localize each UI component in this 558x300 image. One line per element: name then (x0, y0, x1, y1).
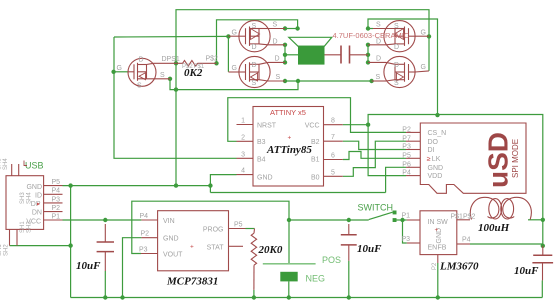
transistor Q1 top-left of bridge (228, 21, 285, 52)
uSD pin CLK stub (406, 157, 420, 159)
node dot inductor out (541, 218, 545, 222)
svg-text:P4: P4 (140, 213, 149, 220)
uSD card symbol outline (420, 123, 526, 193)
svg-text:7: 7 (331, 134, 335, 141)
LM pin SW stub (457, 219, 470, 221)
node dot Q3 drain (366, 43, 370, 47)
svg-text:8: 8 (331, 118, 335, 125)
svg-text:SH3: SH3 (20, 192, 26, 204)
svg-text:P$1P$2: P$1P$2 (451, 214, 476, 221)
wire long vertical x176 R2-left to GND row (175, 63, 177, 185)
svg-text:D: D (275, 56, 280, 63)
wire MCP GND to rail (123, 238, 142, 298)
node dot Q4 source (369, 79, 373, 83)
LM pin FB stub (457, 243, 470, 245)
wire switch lever (369, 212, 393, 219)
wire USB shield stubs row (10, 245, 71, 247)
svg-text:IN: IN (428, 219, 435, 226)
wire net VCC top segment to Q3 source and down to VCC line (368, 19, 438, 115)
svg-text:S: S (376, 22, 381, 29)
USB pin P2 DN (44, 211, 63, 213)
svg-text:D: D (252, 44, 257, 51)
svg-text:CS_N: CS_N (428, 130, 447, 137)
svg-text:B4: B4 (257, 157, 266, 164)
IC U2 MCP73831 box (141, 211, 246, 271)
LM pin IN stub (407, 219, 420, 221)
wire speaker left tap (285, 54, 298, 56)
svg-text:P7: P7 (402, 135, 411, 142)
svg-text:S: S (252, 23, 257, 30)
svg-text:uSD: uSD (483, 132, 514, 188)
speaker SP1 green symbol (289, 37, 341, 64)
wire switch to LM3670 IN (394, 219, 407, 221)
node dot rail 20k (252, 295, 256, 299)
pin 1 NRST stub (237, 124, 254, 126)
svg-text:P6: P6 (402, 161, 411, 168)
node dot Q5 source (168, 77, 172, 81)
MCP pin STAT stub (229, 245, 244, 247)
node dot R2 right (214, 61, 218, 65)
transistor Q4 bottom-right of bridge (mirrored) (368, 56, 429, 87)
wire VCC junction down to uSD VDD (368, 125, 406, 176)
LM pin EN stub (407, 242, 420, 244)
USB pin P1 VCC (44, 219, 63, 221)
pin 6 B1 stub (324, 159, 343, 161)
wire GND riser to uSD GND (386, 167, 406, 192)
node dot VCC right riser (435, 113, 439, 117)
svg-text:ID: ID (35, 192, 42, 199)
uSD pin GND stub (406, 166, 420, 168)
svg-text:FB: FB (438, 245, 447, 252)
wire speaker left node vertical Q1.D to Q2.D (284, 45, 286, 63)
wire Q1 source row (285, 28, 298, 30)
svg-text:P2: P2 (432, 262, 438, 270)
node dot rail cap2 (347, 295, 351, 299)
svg-text:USB: USB (25, 161, 44, 171)
node dot S drop (296, 79, 300, 83)
transistor Q5 left single MOSFET (128, 58, 176, 86)
svg-text:LM3670: LM3670 (439, 261, 479, 273)
node dot VCC junction (366, 123, 370, 127)
svg-text:PROG: PROG (203, 227, 224, 234)
USB pin P4 ID (44, 193, 63, 195)
svg-text:D: D (139, 57, 144, 64)
node dot vcc cap1 (103, 218, 107, 222)
MCP pin GND stub (141, 237, 157, 239)
node dot Q1 drain (283, 43, 287, 47)
svg-text:VOUT: VOUT (163, 252, 183, 259)
node dot Q2 source (283, 79, 287, 83)
svg-text:SH2: SH2 (4, 244, 10, 256)
svg-text:EN: EN (428, 245, 438, 252)
wire S net drop to lower row (176, 81, 298, 90)
svg-text:P$2: P$2 (182, 64, 193, 70)
svg-text:S: S (394, 23, 399, 30)
svg-text:ATTiny85: ATTiny85 (266, 144, 312, 156)
wire NEG pad to rail (288, 281, 290, 297)
svg-text:B0: B0 (311, 174, 320, 181)
connector J1 USB box (6, 164, 63, 246)
node dot Q1 source stub (283, 26, 287, 30)
wire bottom ground rail (71, 297, 543, 299)
node dot battery plus (287, 218, 291, 222)
svg-text:VIN: VIN (163, 218, 175, 225)
svg-text:G: G (232, 30, 237, 37)
wire C3 bottom to rail corner (541, 280, 543, 297)
wire B1 pin6 jog to uSD CLK (343, 152, 406, 160)
battery pad NEG green rectangle (280, 272, 297, 282)
svg-text:P2: P2 (141, 231, 150, 238)
uSD pin VDD stub (406, 175, 420, 177)
svg-text:10uF: 10uF (357, 243, 382, 255)
svg-text:SW: SW (437, 219, 449, 226)
wire USB GND row P5 (63, 185, 211, 187)
wire gate row B4 net from left vertical to Q1 gate (114, 35, 228, 38)
svg-text:+: + (288, 135, 292, 142)
transistor Q3 top-right of bridge (mirrored) (368, 21, 429, 52)
MCP pin VIN stub (141, 219, 157, 221)
capacitor C1 10uF left (97, 224, 114, 271)
wire source row S net Q2 to Q4 (285, 80, 372, 82)
capacitor C2 10uF middle (341, 224, 357, 261)
wire B2 pin7 to uSD DI (343, 141, 406, 149)
node dot rail neg (287, 295, 291, 299)
battery pad POS light green line (263, 263, 316, 265)
svg-text:P5: P5 (402, 152, 411, 159)
wire net N1 top line from resistor R2 left to right gates (176, 10, 429, 71)
uSD pin DI stub (406, 149, 420, 151)
node dot Q4 drain (366, 60, 370, 64)
svg-text:B3: B3 (257, 139, 266, 146)
svg-text:DO: DO (428, 139, 439, 146)
svg-text:1: 1 (241, 118, 245, 125)
capacitor C4 4.7uF horizontal (341, 46, 368, 64)
node dot rail cap1 (103, 295, 107, 299)
pin 8 VCC stub (324, 124, 343, 126)
svg-text:▸: ▸ (37, 202, 40, 208)
svg-text:P3: P3 (52, 196, 61, 203)
MCP pin PROG stub (229, 228, 246, 230)
svg-text:B1: B1 (311, 157, 320, 164)
svg-text:DPS1: DPS1 (162, 56, 180, 63)
node dot gnd x210 (208, 183, 212, 187)
svg-text:S: S (252, 80, 257, 87)
svg-text:3: 3 (241, 151, 245, 158)
svg-text:4: 4 (241, 168, 245, 175)
node dot Q5 gate (111, 70, 115, 74)
svg-text:SPI MODE: SPI MODE (511, 139, 520, 178)
node dot Q2 drain (283, 60, 287, 64)
svg-text:S: S (376, 74, 381, 81)
wire FB row (470, 243, 543, 245)
wire Q5 gate link (114, 71, 128, 73)
svg-text:SH2: SH2 (27, 221, 33, 233)
node dot shield row (68, 243, 72, 247)
node dot USB gnd (68, 183, 72, 187)
MCP pin VOUT stub (141, 253, 158, 255)
svg-text:6: 6 (331, 153, 335, 160)
svg-text:G: G (232, 65, 237, 72)
svg-text:D: D (376, 39, 381, 46)
svg-text:P5: P5 (234, 222, 243, 229)
wire USB VCC P1 row to MCP VIN (63, 219, 142, 221)
svg-text:P1: P1 (52, 213, 61, 220)
svg-text:STAT: STAT (207, 244, 225, 251)
svg-text:P1: P1 (402, 213, 411, 220)
svg-text:D: D (394, 62, 399, 69)
transistor Q2 bottom-left of bridge (228, 56, 285, 87)
wire B0 pin5 up to uSD DO (343, 141, 406, 176)
node dot Q3 source (366, 26, 370, 30)
wire C1 cap bottom to rail (104, 271, 106, 298)
svg-text:B2: B2 (311, 139, 320, 146)
wire Q5 source elbow (170, 79, 176, 90)
svg-text:SH4: SH4 (3, 158, 9, 170)
node dot S row left (174, 87, 178, 91)
svg-text:S: S (137, 83, 142, 90)
svg-text:P3: P3 (139, 247, 148, 254)
wire net N2 second top line R2 right to Q1 source (217, 20, 298, 64)
svg-text:DI: DI (428, 147, 435, 154)
uSD pin CS_N stub (406, 131, 420, 133)
svg-text:SH4: SH4 (27, 192, 33, 204)
svg-text:4.7UF-0603-CERAMIC: 4.7UF-0603-CERAMIC (333, 31, 410, 40)
svg-text:P3: P3 (402, 236, 411, 243)
USB pin P3 DP (44, 202, 63, 204)
wire speaker right node vertical Q3.D to Q4.D (367, 45, 369, 63)
svg-text:P4: P4 (462, 237, 471, 244)
node dot gnd x176 (174, 183, 178, 187)
svg-text:D: D (394, 44, 399, 51)
wire ATTiny pin4 GND elbow (210, 175, 236, 193)
svg-text:P3: P3 (402, 144, 411, 151)
svg-text:S: S (394, 80, 399, 87)
svg-text:VDD: VDD (428, 173, 443, 180)
svg-text:SWITCH: SWITCH (358, 203, 394, 213)
wire LM3670 GND to rail (437, 263, 439, 298)
svg-text:ATTINY x5: ATTINY x5 (270, 108, 306, 117)
inductor L1 100uH (470, 197, 531, 219)
node dot FB cap3 (541, 244, 545, 248)
svg-text:LK: LK (432, 156, 441, 163)
svg-text:NRST: NRST (257, 123, 277, 130)
svg-text:GND: GND (26, 184, 42, 191)
svg-text:P$1: P$1 (194, 64, 205, 70)
svg-text:P2: P2 (52, 205, 61, 212)
svg-text:G: G (117, 65, 122, 72)
pin 2 B3 stub (237, 140, 254, 142)
svg-text:D: D (376, 56, 381, 63)
svg-text:P4: P4 (52, 188, 61, 195)
svg-text:20K0: 20K0 (258, 244, 283, 256)
node dot speaker left (283, 53, 287, 57)
resistor R1 20K0 vertical (251, 229, 256, 290)
pin 4 GND stub (237, 174, 254, 176)
svg-text:P5: P5 (52, 179, 61, 186)
node dot Q3 gate on riser (427, 34, 431, 38)
svg-text:GND: GND (257, 174, 273, 181)
wire USB GND down left vertical to bottom rail (70, 186, 72, 298)
wire inductor right to VCC vertical (528, 219, 543, 221)
node dot Q1 gate (226, 34, 230, 38)
node dot rail lm gnd (436, 295, 440, 299)
svg-text:10uF: 10uF (76, 260, 101, 272)
wire battery plus row to switch (289, 219, 369, 221)
svg-text:GND: GND (428, 165, 444, 172)
svg-text:P$2: P$2 (206, 56, 219, 63)
wire MCP VOUT bypass over chip to switch node (132, 201, 289, 263)
svg-text:D: D (252, 62, 257, 69)
pin 3 B4 stub (237, 157, 254, 159)
wire B3 net ATTiny pin2 up and over to uSD CS_N (228, 98, 406, 142)
wire gate pair vertical Q1-Q2 (227, 36, 229, 71)
capacitor C3 10uF right (532, 246, 553, 281)
wire Q3 source row (368, 28, 373, 30)
svg-text:SH1: SH1 (20, 221, 26, 233)
LM pin GND stub bottom (437, 255, 439, 263)
node dot R2 left (174, 61, 178, 65)
svg-text:+: + (435, 227, 439, 234)
node dot switch cap2 (347, 218, 351, 222)
wire vertical B4 down to ATTiny pin3 (114, 37, 237, 158)
svg-text:D: D (273, 39, 278, 46)
node dot rail mcp gnd (120, 295, 124, 299)
uSD pin DO stub (406, 140, 420, 142)
svg-text:G: G (421, 30, 426, 37)
pin 5 B0 stub (324, 175, 343, 177)
pin 7 B2 stub (324, 140, 343, 142)
USB pin P5 GND (44, 185, 63, 187)
svg-text:10uF: 10uF (514, 265, 539, 277)
svg-text:DN: DN (32, 210, 42, 217)
svg-text:GND: GND (163, 236, 179, 243)
svg-text:G: G (421, 64, 426, 71)
node dot switch out (400, 218, 404, 222)
wire C2 cap bottom to rail (348, 261, 350, 298)
svg-text:MCP73831: MCP73831 (166, 276, 218, 288)
switch contact squares (393, 211, 397, 215)
svg-text:≥: ≥ (427, 156, 431, 163)
svg-text:P4: P4 (402, 170, 411, 177)
svg-text:VCC: VCC (305, 123, 320, 130)
svg-text:+: + (190, 244, 194, 251)
svg-text:100uH: 100uH (478, 222, 510, 234)
resistor R2 0K2 horizontal (176, 61, 217, 67)
wire VCC junction up to VCC line across to right (368, 115, 543, 246)
node dot N2 corner (295, 26, 299, 30)
svg-text:5: 5 (331, 169, 335, 176)
wire EN tie to IN (403, 220, 407, 243)
IC U3 LM3670 box (407, 211, 470, 263)
wire VCC pin8 to junction (343, 124, 368, 126)
wire 20K0 bottom to rail (253, 290, 255, 298)
IC U1 ATTiny85 box (237, 107, 343, 187)
USB shield pins bottom SH1 SH2 (9, 229, 11, 245)
svg-text:POS: POS (322, 255, 341, 265)
wire GND long row (210, 192, 385, 194)
svg-text:2: 2 (241, 134, 245, 141)
svg-text:P2: P2 (402, 127, 411, 134)
node dot cap right tap (366, 53, 370, 57)
wire PROG short link (246, 228, 255, 230)
svg-text:S: S (160, 72, 165, 79)
svg-text:NEG: NEG (306, 274, 326, 284)
USB shield pins top SH3 SH4 (11, 164, 13, 176)
svg-text:S: S (273, 22, 278, 29)
svg-text:S: S (276, 74, 281, 81)
